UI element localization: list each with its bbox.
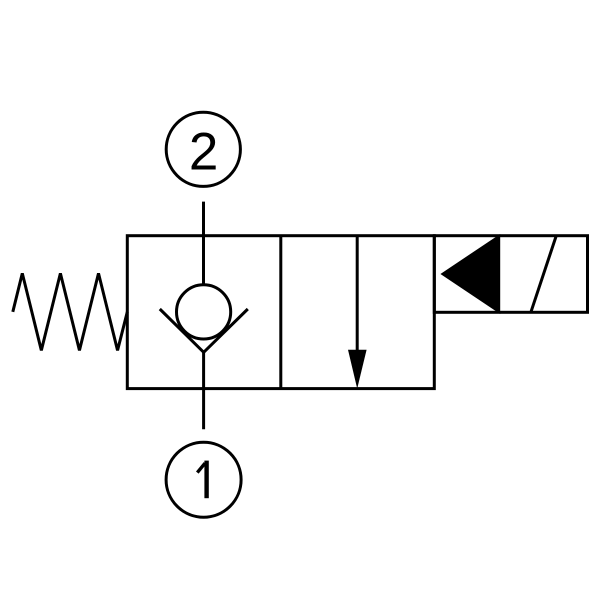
spring (return spring) <box>13 273 128 350</box>
valve body envelope <box>127 236 434 389</box>
port label 1 (stem) <box>204 461 208 499</box>
port 2 circle <box>166 112 240 186</box>
flow arrowhead <box>348 350 367 389</box>
solenoid armature triangle <box>443 236 499 312</box>
wire: port 1 leader line <box>202 352 205 429</box>
solenoid box <box>434 236 587 313</box>
check valve ball <box>177 285 231 339</box>
solenoid slash <box>531 237 556 312</box>
flow arrow shaft <box>356 236 359 352</box>
port 1 circle <box>166 442 241 517</box>
wire: port 2 leader line <box>202 202 205 285</box>
check valve seat <box>160 309 248 352</box>
port label 1 (flag) <box>197 463 205 472</box>
svg-text:2: 2 <box>189 122 218 181</box>
position divider <box>279 236 282 389</box>
